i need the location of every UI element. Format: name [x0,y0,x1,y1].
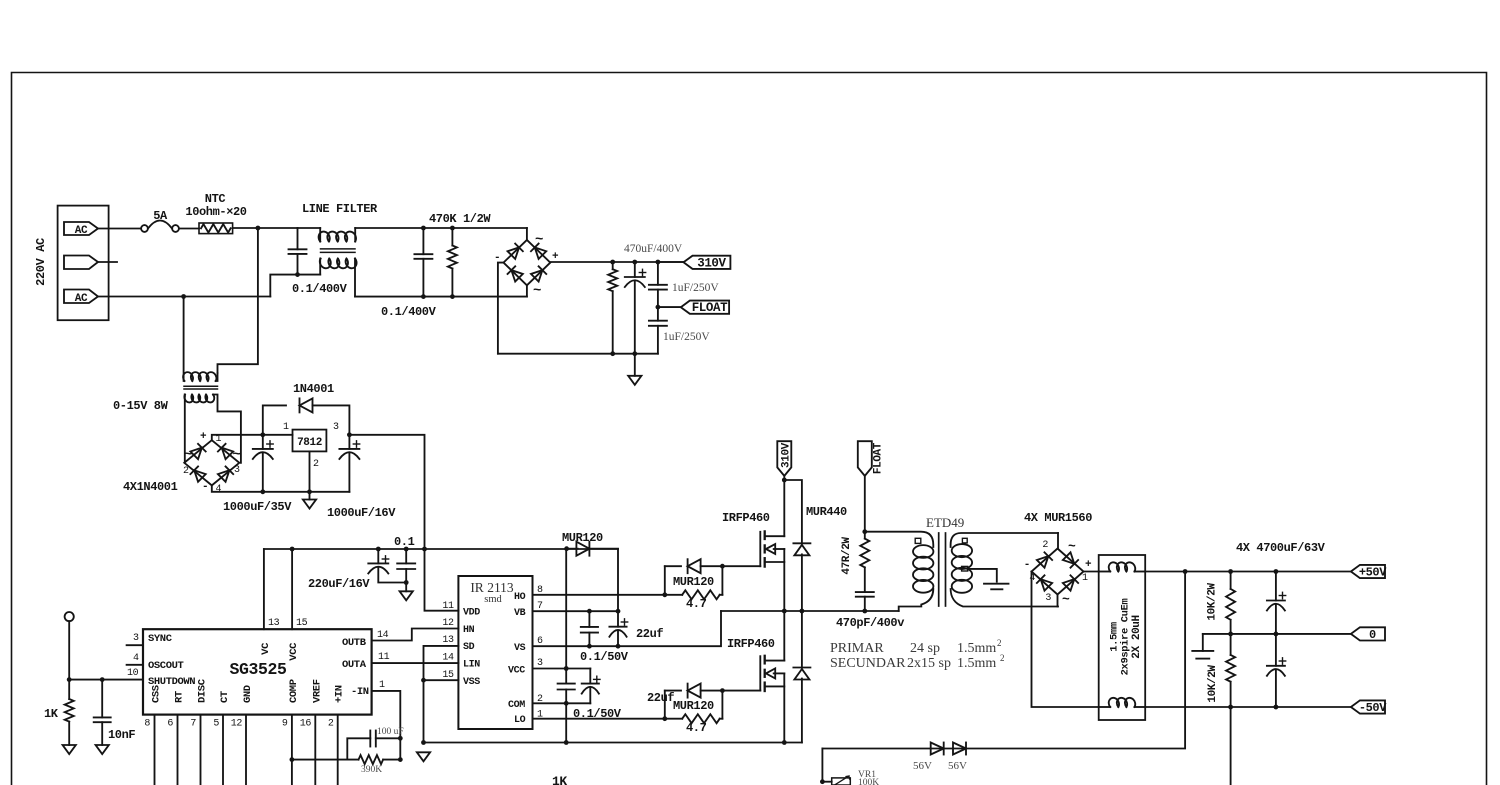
node 1uF top [656,260,661,265]
wire +50V rail [1145,571,1351,573]
svg-text:100 uF: 100 uF [377,727,404,737]
wire VC pin13 drop [263,549,265,629]
pennant FLOAT [658,306,681,308]
wire gate lead lower [722,690,760,692]
svg-text:3: 3 [133,633,139,644]
svg-text:5A: 5A [153,209,168,223]
wire VCC pin15 drop [291,549,293,629]
svg-text:MUR120: MUR120 [673,699,714,713]
pin 6 RT [177,715,179,785]
svg-text:3: 3 [537,658,543,669]
node R top [1228,569,1233,574]
wire Q2 drain to mid rail [783,611,785,661]
svg-text:+IN: +IN [334,685,346,703]
wire VCC rail [264,548,618,550]
svg-text:7: 7 [190,719,196,730]
wire 7812 gnd pin [309,451,311,491]
svg-text:0.1/400V: 0.1/400V [381,305,437,319]
wire COM line [533,702,591,704]
node fb right bottom [398,757,403,762]
node aux transformer tap [181,294,186,299]
svg-text:SG3525: SG3525 [229,660,287,679]
transistor Q2 IRFP460 lower [759,656,761,690]
svg-text:7812: 7812 [297,437,322,449]
diode MUR440 upper [793,542,810,544]
node Q2 source rail [782,740,787,745]
svg-text:0.1: 0.1 [394,535,415,549]
svg-text:4: 4 [133,653,139,664]
svg-text:0-15V 8W: 0-15V 8W [113,399,169,413]
svg-text:+50V: +50V [1359,566,1387,580]
node VCC cap [564,666,569,671]
capacitor 0.1/400V first [297,228,299,249]
svg-text:220uF/16V: 220uF/16V [308,577,370,591]
choke top coil [1099,571,1111,573]
svg-text:2X 20uH: 2X 20uH [1131,615,1143,658]
node SD VSS [421,678,426,683]
svg-text:12: 12 [231,719,243,730]
svg-text:1.5mm: 1.5mm [1109,622,1121,652]
wire NTC to line filter node [233,227,258,229]
svg-text:-: - [1024,559,1030,571]
node C bottom [1274,705,1279,710]
svg-text:2: 2 [328,719,334,730]
node FLOAT tap [656,305,661,310]
svg-text:1: 1 [1082,573,1088,584]
node 1000uF35 bottom [260,489,265,494]
svg-text:24 sp: 24 sp [910,641,940,656]
svg-text:SYNC: SYNC [148,633,173,645]
svg-text:VCC: VCC [508,666,525,677]
svg-text:2: 2 [183,466,189,477]
capacitor 4700uF lower [1275,634,1277,666]
svg-text:1000uF/16V: 1000uF/16V [327,506,396,520]
node 0.1 bottom [404,580,409,585]
diode MUR120 lower gate [664,691,666,719]
svg-text:3: 3 [333,422,339,433]
node 50 loop [1183,569,1188,574]
wire sense drop [1230,707,1232,785]
transformer T1 secondary winding [951,533,1058,547]
svg-text:2: 2 [1042,540,1048,551]
svg-text:4X1N4001: 4X1N4001 [123,480,178,494]
bridge rectifier 4X MUR1560 [1057,533,1059,549]
svg-text:OUTA: OUTA [342,659,367,671]
terminal shutdown input [65,612,74,621]
wire cap1 bottom rail [270,275,320,297]
diode MUR120 upper gate [664,566,666,595]
svg-text:220V AC: 220V AC [34,238,48,286]
pennant 0 [1351,627,1385,640]
capacitor 0.1/50V lower [558,683,575,685]
svg-text:22uf: 22uf [636,627,663,641]
svg-text:DISC: DISC [197,678,209,703]
node 470uF top [632,260,637,265]
node cap1 bottom [295,272,300,277]
wire aux bridge minus rail [212,485,350,491]
diode MUR440 lower [801,611,803,668]
svg-text:4X MUR1560: 4X MUR1560 [1024,511,1092,525]
pin 4 OSCOUT [127,664,143,666]
aux transformer core [184,385,218,387]
svg-text:0: 0 [1369,628,1376,642]
pin 9 COMP [291,715,293,785]
svg-text:2: 2 [1000,653,1005,663]
svg-text:VS: VS [514,643,526,654]
svg-text:47R/2W: 47R/2W [841,537,853,575]
wire -50V rail [1145,706,1351,708]
IC U1 SG3525 body [143,629,372,714]
svg-text:11: 11 [378,652,390,663]
svg-text:VDD: VDD [463,608,480,619]
svg-text:22uf: 22uf [647,691,674,705]
svg-text:~: ~ [535,232,543,248]
node after NTC [256,226,261,231]
node MUR440 rail [800,609,805,614]
node fb comp [290,757,295,762]
svg-text:310V: 310V [697,256,726,270]
wire bridge bottom [526,285,528,296]
wire bottom AC after choke to bridge [355,296,527,298]
pin AC bottom [64,290,98,304]
wire 310V return rail [498,353,658,355]
wire fuse to NTC [179,228,199,230]
svg-text:4X 4700uF/63V: 4X 4700uF/63V [1236,541,1326,555]
node COM rail [564,740,569,745]
svg-text:HN: HN [463,625,475,636]
svg-text:2: 2 [997,638,1002,648]
pin 3 SYNC [127,644,143,646]
wire gate lead upper [722,565,760,567]
pin middle [64,256,98,270]
node HO net [662,592,667,597]
resistor bleeder [612,262,614,269]
svg-text:AC: AC [75,225,88,237]
svg-text:15: 15 [296,618,308,629]
svg-text:10K/2W: 10K/2W [1207,583,1219,621]
svg-text:+: + [200,431,207,443]
wire AC top to fuse [98,228,141,230]
wire VS line [533,611,722,646]
svg-text:470K 1/2W: 470K 1/2W [429,212,491,226]
capacitor 100uF feedback [369,731,371,747]
svg-text:56V: 56V [948,760,967,772]
line filter choke core [321,248,356,250]
wire top AC after choke to bridge [355,227,527,229]
svg-text:3: 3 [1045,593,1051,604]
svg-text:COM: COM [508,700,525,711]
resistor 4.7 lower [665,718,682,720]
capacitor 1uF/250V lower [657,307,659,321]
resistor 1K shutdown [68,680,70,699]
IC U2 IR2113 body [458,576,532,729]
node cap2 bottom [421,294,426,299]
svg-text:56V: 56V [913,760,932,772]
svg-text:100K: 100K [858,778,879,785]
capacitor 0.1 bypass [405,549,407,563]
bridge rectifier main [526,228,528,240]
line filter choke top winding [319,228,321,242]
node R bottom [1228,705,1233,710]
node 310V tag [782,478,787,483]
pin AC top [64,222,98,235]
ground IR2113 [417,752,430,761]
svg-text:SD: SD [463,642,475,653]
wire Q2 source to bottom rail [783,673,785,742]
fuse F1 5A [141,225,148,232]
node bleeder top [610,260,615,265]
node shutdown 1K [67,677,72,682]
svg-text:IRFP460: IRFP460 [722,511,770,525]
wire bridge4 to minus rail [1032,572,1099,708]
svg-text:390K: 390K [361,765,382,775]
svg-text:CSS: CSS [151,685,163,703]
pennant 310V float tag [777,441,791,476]
capacitor 470pF/400v [856,591,874,593]
svg-text:10ohm-×20: 10ohm-×20 [185,205,246,219]
svg-text:SECUNDAR: SECUNDAR [830,656,906,671]
svg-text:10: 10 [127,668,139,679]
wire Q1 source to mid rail [783,549,785,611]
svg-text:~: ~ [1062,592,1070,607]
capacitor 1000uF/16V [348,435,350,449]
wire VCC line [533,668,591,670]
wire bridge left return [498,263,504,354]
resistor 470K 1/2W [451,228,453,246]
pennant FLOAT tag [858,441,872,476]
resistor 10K/2W upper [1230,572,1232,589]
secondary polarity dot [962,538,967,543]
node fb right top [398,736,403,741]
node shutdown 10nF [100,677,105,682]
svg-text:-: - [202,481,208,493]
svg-text:MUR120: MUR120 [562,531,603,545]
capacitor 0.1/400V second [422,228,424,254]
node 12V out [347,432,352,437]
node Q1 source rail [782,609,787,614]
wire to ground [634,354,636,376]
svg-text:LO: LO [514,715,526,726]
transformer T1 core [938,533,940,606]
pennant 310V [658,261,684,263]
svg-text:1N4001: 1N4001 [293,382,334,396]
svg-text:+: + [1085,559,1092,571]
node bleeder bottom [610,351,615,356]
svg-text:12: 12 [442,618,454,629]
node 1000uF35 top [260,432,265,437]
wire node to choke top [258,227,320,229]
diode MUR120 bootstrap [567,548,578,550]
ground 7812 [309,492,311,500]
svg-text:3: 3 [234,465,240,476]
svg-text:VCC: VCC [288,642,300,661]
regulator 7812 [293,430,327,452]
svg-text:smd: smd [484,594,502,605]
svg-text:MUR440: MUR440 [806,505,847,519]
resistor 390K feedback [292,759,359,761]
wire bridge3 to secondary [1057,595,1059,607]
capacitor 22uf lower [589,669,591,684]
wire 310V to drain [783,476,785,536]
svg-text:0.1/400V: 0.1/400V [292,282,348,296]
svg-text:-IN: -IN [351,686,369,698]
node 470K bottom [450,294,455,299]
svg-text:0.1/50V: 0.1/50V [580,650,629,664]
svg-text:IRFP460: IRFP460 [727,637,775,651]
node 470uF bottom [632,351,637,356]
transistor Q1 IRFP460 upper [759,532,761,566]
svg-text:14: 14 [377,630,389,641]
wire aux bridge plus rail [212,435,293,440]
bridge rectifier aux 4X1N4001 [184,440,239,485]
primary polarity dot [915,538,921,543]
node R mid [1228,632,1233,637]
ground 0.1 [400,591,413,600]
svg-text:GND: GND [242,685,254,703]
wire aux primary feed vertical [218,228,258,373]
wire bottom rail [424,742,802,744]
svg-text:FLOAT: FLOAT [872,442,884,474]
wire 12V feed [349,435,424,549]
svg-text:VB: VB [514,608,526,619]
svg-text:COMP: COMP [288,679,300,703]
svg-text:~: ~ [1068,539,1076,554]
capacitor 0.1/50V upper [588,611,590,627]
thermistor NTC 10ohm-x20 [199,223,233,234]
node gate lower [720,688,725,693]
pin 16 VREF [314,715,316,785]
choke bottom coil [1099,706,1111,708]
wire VCC vertical [565,549,567,684]
svg-text:1uF/250V: 1uF/250V [663,331,710,343]
resistor 4.7 upper [665,594,682,596]
transformer T1 primary winding [865,532,934,547]
wire VR1 drop [821,749,823,782]
node snubber rail [862,609,867,614]
diode zener 56V second [965,743,967,755]
capacitor 22uf upper [617,611,619,627]
ground 1K [63,745,76,754]
svg-text:6: 6 [167,719,173,730]
svg-text:13: 13 [442,635,454,646]
svg-text:9: 9 [282,719,288,730]
svg-text:AC: AC [75,293,88,305]
svg-text:470pF/400v: 470pF/400v [836,616,904,630]
node VR1 [820,779,825,784]
potentiometer VR1 100K [822,781,831,783]
ground main bus [628,376,641,385]
svg-text:5: 5 [213,719,219,730]
node VS 589 [587,644,592,649]
svg-text:VSS: VSS [463,677,480,688]
node 12V feed rail [422,547,427,552]
pin 2 +IN [337,715,339,785]
svg-text:4: 4 [216,484,222,495]
pin 8 CSS [154,715,156,785]
svg-text:1000uF/35V: 1000uF/35V [223,500,292,514]
svg-text:1.5mm: 1.5mm [957,641,996,656]
wire AC bottom from connector [98,296,270,298]
secondary center tap [962,566,968,571]
node primary top [862,529,867,534]
diode 1N4001 bypass [263,405,286,434]
node bottom rail left [421,740,426,745]
wire 310V rail [550,261,683,263]
svg-text:10K/2W: 10K/2W [1207,665,1219,703]
node gate upper [720,564,725,569]
node VCC pin15 [290,547,295,552]
capacitor 4700uF upper [1275,572,1277,601]
wire shutdown [68,621,70,679]
svg-text:PRIMAR: PRIMAR [830,641,884,656]
svg-text:4.7: 4.7 [686,597,707,611]
svg-text:2x15 sp: 2x15 sp [907,656,951,671]
wire mid rail [721,610,899,612]
wire 0V rail [1203,633,1351,635]
svg-text:2x9spire CuEm: 2x9spire CuEm [1120,599,1132,676]
svg-text:16: 16 [300,719,312,730]
svg-text:OUTB: OUTB [342,637,367,649]
wire 50V feedback loop [822,572,1185,749]
svg-text:1uF/250V: 1uF/250V [672,282,719,294]
svg-text:8: 8 [144,719,150,730]
svg-text:~: ~ [233,447,241,463]
svg-text:ETD49: ETD49 [926,515,964,530]
wire LO line [533,718,665,720]
svg-text:1K: 1K [44,707,59,721]
line filter choke bottom winding [319,259,321,275]
svg-text:LIN: LIN [463,660,480,671]
output choke box [1099,555,1146,720]
node C top [1274,569,1279,574]
ground 0V [1202,634,1204,651]
svg-text:1.5mm: 1.5mm [957,656,996,671]
pennant -50V [1351,700,1385,713]
node rail 566 [564,546,569,551]
svg-text:1K: 1K [552,774,567,785]
diode zener 56V first [943,743,945,755]
node LO net [662,716,667,721]
pin 7 DISC [200,715,202,785]
ground 10nF [96,745,109,754]
wire bridge1 to choke [1084,571,1099,573]
svg-text:1: 1 [379,680,385,691]
node COM cap [564,701,569,706]
capacitor 1000uF/35V [253,448,273,450]
svg-text:4.7: 4.7 [686,721,707,735]
node 7812 gnd [307,489,312,494]
pin 12 GND [245,715,247,785]
node 220uF top [376,547,381,552]
ground center tap [984,583,1009,585]
svg-text:14: 14 [442,653,454,664]
node C mid [1274,632,1279,637]
svg-text:OSCOUT: OSCOUT [148,660,184,672]
svg-text:310V: 310V [780,442,792,468]
capacitor 10nF [101,680,103,718]
svg-text:IR 2113: IR 2113 [470,580,514,595]
svg-text:VC: VC [260,642,272,655]
capacitor 470uF/400V [634,262,636,277]
svg-text:NTC: NTC [205,192,226,206]
svg-text:-50V: -50V [1359,701,1387,715]
wire HO line [533,594,665,596]
node 0.1 top [404,547,409,552]
aux transformer secondary [184,395,186,397]
svg-text:MUR120: MUR120 [673,575,714,589]
svg-text:HO: HO [514,592,526,603]
aux transformer primary [183,297,185,382]
